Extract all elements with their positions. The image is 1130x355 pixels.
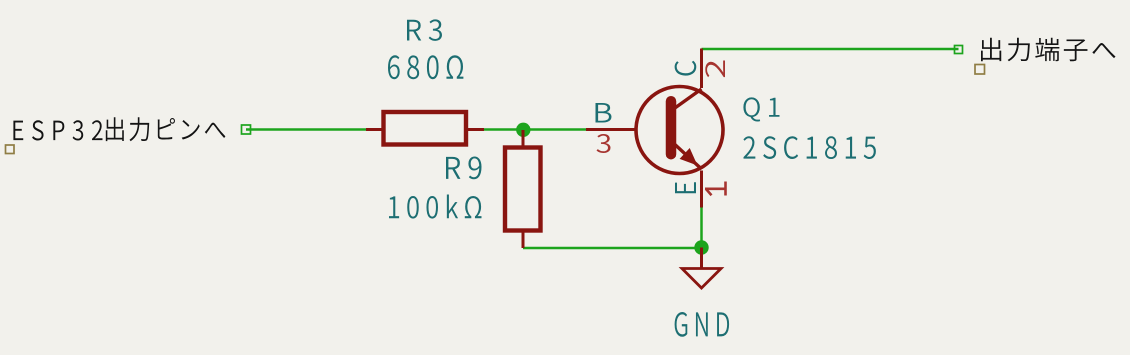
value 100kohm [389, 194, 481, 218]
resistor R9 body [505, 148, 541, 231]
wire end square right [955, 46, 963, 54]
wire W5: R9 bottom to emitter node [523, 247, 702, 250]
wire W2: R3 to Q1 base [483, 128, 586, 131]
label anchor square left [6, 145, 15, 154]
transistor Q1 collector stroke [670, 89, 702, 112]
pin name E [675, 182, 696, 193]
resistor R1 body (R3) [384, 112, 467, 145]
ground net name GND [675, 312, 729, 337]
transistor Q1 emitter stroke [670, 140, 702, 169]
reference R3 [407, 19, 442, 41]
wire W1: label to R3 [246, 128, 367, 131]
net label output terminal [981, 38, 1116, 62]
resistor R9 pin 2 [522, 231, 525, 249]
transistor Q1 base pin (3) [586, 128, 637, 131]
pin number 3 [597, 134, 611, 153]
wire end square left [242, 125, 251, 134]
transistor Q1 circle [636, 87, 723, 174]
transistor Q1 emitter pin (1) [700, 171, 703, 208]
pin number 2 [705, 60, 725, 77]
junction node at R3/R9 [516, 123, 530, 137]
value 2SC1815 [743, 136, 875, 159]
ground symbol pin [700, 248, 703, 269]
reference R9 [446, 157, 482, 180]
pin number 1 [705, 182, 726, 196]
wire W3: collector to output label [702, 48, 959, 51]
resistor R9 pin 1 [522, 130, 525, 148]
value 680ohm [388, 55, 463, 79]
pin name B [595, 103, 611, 123]
transistor Q1 base bar [666, 101, 677, 154]
label anchor square right [975, 65, 985, 75]
resistor R3 pin 2 [466, 128, 484, 131]
reference Q1 [743, 97, 779, 121]
pin name C [675, 61, 697, 76]
ground symbol triangle [682, 269, 721, 289]
resistor R3 pin 1 [366, 128, 384, 131]
junction node at emitter/GND [694, 240, 708, 254]
transistor Q1 collector pin (2) [700, 49, 703, 89]
net label ESP32 output pin (latin part) [13, 120, 102, 140]
wire W4: emitter down [700, 207, 703, 248]
transistor Q1 emitter arrow [680, 148, 698, 166]
net label ESP32 output pin (kana part) [106, 117, 226, 141]
